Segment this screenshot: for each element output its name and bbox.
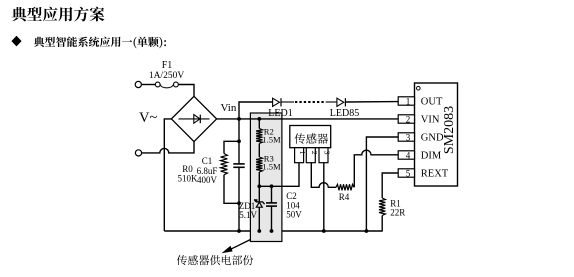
title 典型应用方案 — [12, 7, 105, 22]
LED85 — [337, 98, 346, 106]
svg-text:SM2083: SM2083 — [442, 106, 457, 154]
Vin rail wire — [217, 118, 399, 120]
svg-text:C1: C1 — [202, 156, 213, 166]
node C1 bottom — [237, 201, 241, 205]
dotted wire (omitted LEDs) — [295, 101, 326, 103]
resistor R2 — [256, 119, 262, 144]
resistor R1 — [379, 198, 385, 232]
svg-text:2: 2 — [406, 115, 411, 125]
node R2 top on Vin rail — [257, 117, 261, 121]
caption 传感器供电部份 — [177, 255, 253, 265]
node rail C1 — [237, 229, 241, 233]
wire Vin riser to LED row — [239, 102, 273, 119]
label Vin — [221, 102, 237, 114]
label LED85 — [330, 108, 359, 119]
sensor pin 1 — [295, 148, 307, 163]
svg-text:510K: 510K — [178, 173, 199, 183]
node rail C2 — [270, 229, 274, 233]
svg-text:1: 1 — [298, 151, 307, 155]
sensor box 传感器 — [290, 126, 331, 148]
wire terminal1 to fuse — [142, 84, 156, 86]
svg-text:DIM: DIM — [421, 151, 442, 162]
wire REXT pin5 to R1 — [382, 173, 398, 198]
svg-text:5: 5 — [406, 169, 411, 179]
bridge rectifier — [171, 96, 216, 141]
wire R4 to DIM with hop over GND line — [354, 150, 398, 187]
wire GND pin3 to rail — [366, 137, 398, 231]
node rail GND — [365, 229, 369, 233]
node rail ZD1 — [257, 229, 261, 233]
label R0 510K — [178, 164, 199, 183]
AC terminal 1 — [135, 81, 141, 87]
wire fuse to bridge top — [178, 85, 194, 97]
op IC U1 SM2083 body — [415, 83, 458, 186]
svg-text:Vin: Vin — [221, 102, 237, 114]
svg-text:50V: 50V — [286, 210, 302, 220]
resistor R0 — [221, 141, 239, 203]
svg-text:1A/250V: 1A/250V — [149, 71, 185, 81]
node Vin junction — [237, 117, 241, 121]
svg-text:4: 4 — [406, 151, 411, 161]
sensor pin 2 — [306, 148, 319, 163]
ground rail (bottom) — [164, 230, 382, 232]
label V~ — [139, 110, 157, 126]
wire C1 node to rail — [238, 203, 240, 231]
wire sensor pin3 to rail — [323, 163, 325, 231]
wire bridge left vertex to ground rail — [164, 119, 171, 231]
wire terminal2 to bridge bottom with hop — [142, 142, 194, 153]
wire LED85 to pin1 — [345, 101, 398, 103]
label R4 — [339, 192, 350, 202]
pin 1 OUT — [398, 97, 443, 108]
label LED1 — [268, 108, 292, 119]
svg-text:GND: GND — [421, 133, 444, 144]
pin 2 VIN — [398, 115, 440, 126]
wire R2 to R3 — [258, 144, 260, 158]
node 5V rail left — [257, 184, 261, 188]
LED1 — [273, 98, 281, 106]
svg-text:2: 2 — [310, 151, 319, 155]
svg-text:F1: F1 — [162, 60, 173, 71]
pin 4 DIM — [398, 151, 442, 162]
svg-text:400V: 400V — [197, 175, 218, 185]
svg-text:R4: R4 — [339, 192, 350, 202]
label R3 1.5M — [262, 153, 281, 171]
svg-text:REXT: REXT — [421, 169, 449, 180]
svg-text:1.5M: 1.5M — [262, 134, 281, 144]
svg-text:3: 3 — [406, 133, 411, 143]
svg-text:V~: V~ — [139, 110, 157, 126]
node C1 top — [237, 139, 241, 143]
AC terminal 2 — [135, 150, 141, 156]
label C2 104 50V — [286, 191, 302, 219]
pin 3 GND — [398, 133, 444, 144]
wire dotted to LED85 — [326, 101, 337, 103]
bullet diamond — [11, 36, 21, 47]
svg-text:VIN: VIN — [421, 115, 440, 126]
svg-text:22R: 22R — [390, 208, 405, 218]
wire sensor pin1 to 5V rail — [259, 163, 299, 186]
label ZD1 5.1V — [239, 201, 258, 220]
svg-text:LED85: LED85 — [330, 108, 359, 119]
heading 典型智能系统应用一(单颗): — [34, 37, 166, 49]
pin 5 REXT — [398, 169, 449, 180]
sensor pin 3 — [319, 148, 331, 163]
label C1 6.8uF 400V — [197, 156, 218, 185]
fuse F1 — [155, 82, 178, 88]
capacitor C2 — [266, 186, 277, 231]
label R1 22R — [390, 198, 405, 217]
wire LED1 to dotted — [281, 101, 294, 103]
svg-text:1: 1 — [406, 97, 411, 107]
zener diode ZD1 — [254, 186, 265, 231]
svg-text:LED1: LED1 — [268, 108, 292, 119]
resistor R4 — [336, 184, 354, 190]
label R2 1.5M — [262, 126, 281, 144]
svg-text:5.1V: 5.1V — [239, 210, 257, 220]
svg-text:3: 3 — [322, 151, 331, 155]
svg-text:OUT: OUT — [421, 97, 443, 108]
label F1 — [162, 60, 173, 71]
arrow to sensor supply caption — [222, 240, 251, 254]
wire Vin to C1 node — [238, 119, 240, 141]
svg-text:1.5M: 1.5M — [262, 161, 281, 171]
node rail sensor pin3 — [322, 229, 326, 233]
node 5V rail C2 — [270, 184, 274, 188]
label 1A/250V — [149, 71, 185, 81]
resistor R3 — [256, 157, 262, 186]
sensor supply region box — [250, 113, 282, 242]
wire sensor pin2 to R4 with hop — [311, 163, 336, 187]
capacitor C1 — [233, 141, 244, 203]
